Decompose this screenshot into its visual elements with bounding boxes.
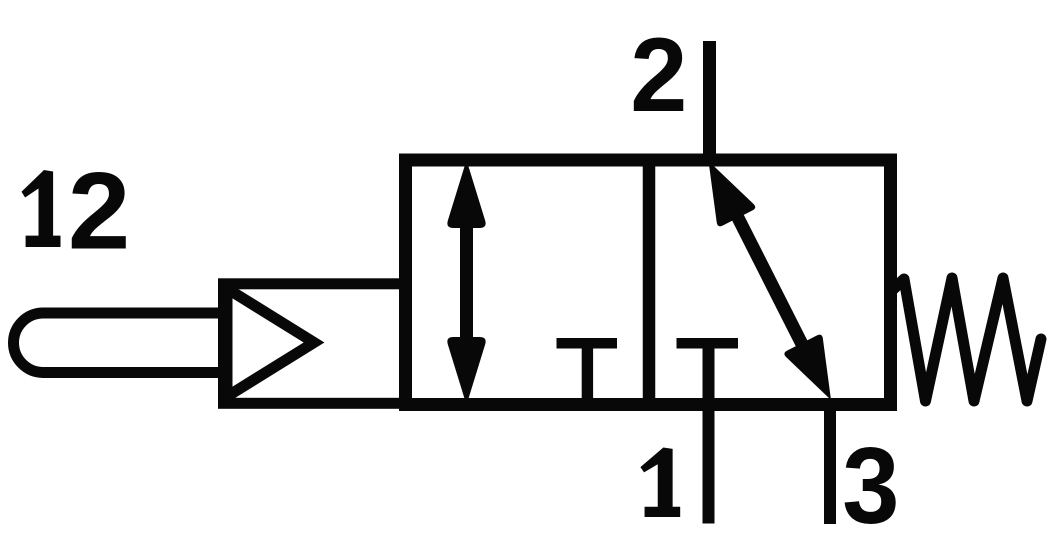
svg-text:2: 2 — [630, 17, 687, 134]
svg-text:2: 2 — [68, 150, 130, 273]
svg-text:3: 3 — [842, 425, 899, 546]
